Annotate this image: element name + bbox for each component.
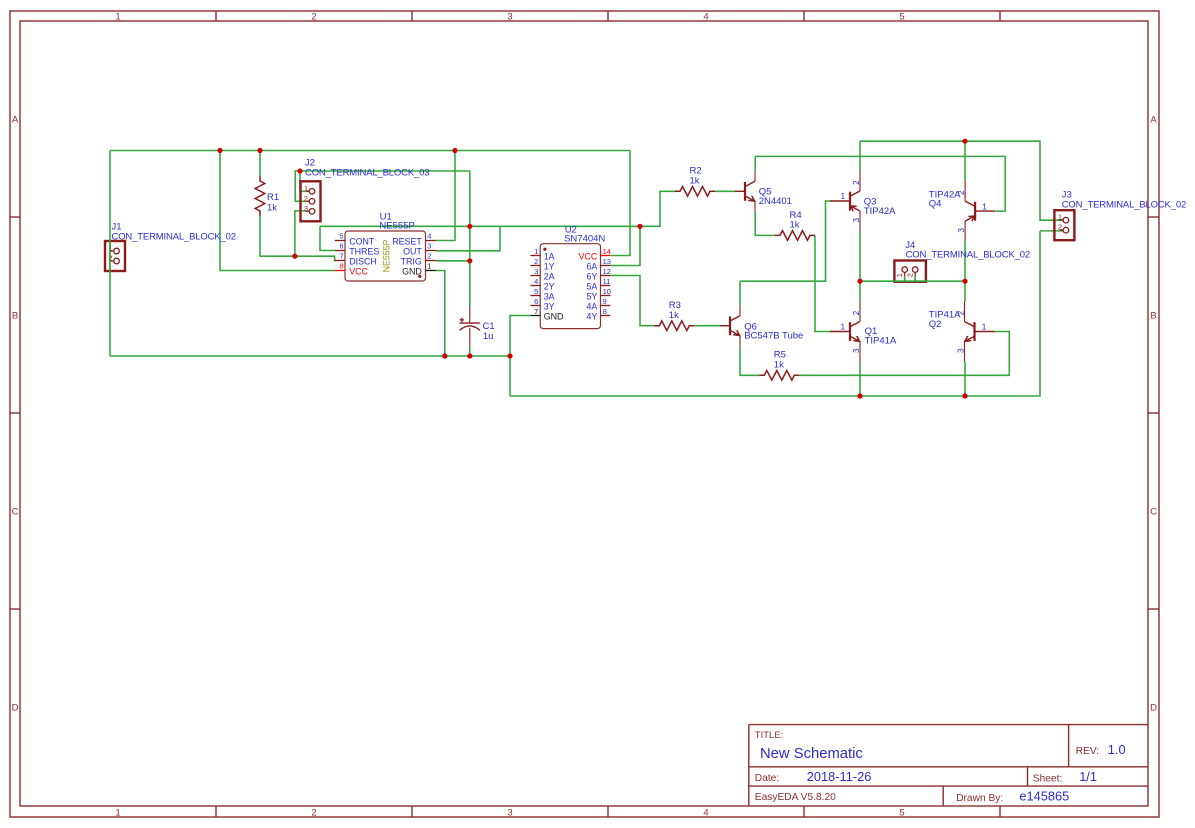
svg-text:3: 3	[852, 217, 861, 222]
wire R2 to Q5 base	[715, 190, 735, 192]
svg-text:Q2: Q2	[929, 319, 942, 330]
U1 pin 5 stub	[335, 240, 345, 242]
U2 pin 14 stub	[601, 255, 611, 257]
wire Q2 emitter down	[964, 362, 966, 397]
wire emitters mid rail	[860, 280, 965, 282]
wire U2 6A up	[610, 226, 640, 265]
junction Q4 emitter node	[962, 279, 967, 284]
svg-text:2: 2	[304, 194, 308, 203]
wire OUT jog up	[436, 226, 501, 251]
U1 pin 1 stub	[426, 270, 436, 272]
U1 GND marker dot	[418, 275, 421, 278]
svg-text:1: 1	[304, 184, 308, 193]
wire J3 pin2 link	[1040, 230, 1064, 232]
wire R4 to Q1 base	[815, 235, 830, 331]
svg-text:A: A	[12, 115, 19, 126]
svg-text:CONT: CONT	[349, 236, 375, 246]
svg-text:3A: 3A	[544, 291, 555, 301]
U2 pin 6 stub	[530, 305, 540, 307]
svg-text:NE555P: NE555P	[382, 239, 392, 272]
svg-text:1: 1	[1058, 213, 1062, 222]
svg-text:3: 3	[534, 267, 538, 276]
svg-text:1k: 1k	[690, 176, 700, 187]
U2 pin 5 stub	[530, 295, 540, 297]
svg-text:1.0: 1.0	[1108, 742, 1126, 757]
wire U2 6Y to R3	[610, 276, 654, 326]
svg-text:2: 2	[427, 251, 431, 260]
wire Q3 collector rail	[860, 141, 1064, 220]
svg-text:1Y: 1Y	[544, 261, 555, 271]
svg-text:e145865: e145865	[1019, 789, 1069, 804]
svg-text:GND: GND	[544, 311, 564, 321]
junction J2 pin3 / DISCH net	[292, 254, 297, 259]
svg-text:New Schematic: New Schematic	[760, 746, 863, 762]
wire THRES net horizontal	[320, 225, 640, 227]
U2 pin 12 stub	[601, 275, 611, 277]
svg-text:1: 1	[840, 323, 845, 332]
transistor Q5 body	[735, 171, 755, 211]
svg-text:Q4: Q4	[929, 199, 942, 210]
wire Q5 collector up	[754, 156, 756, 171]
junction U1-VCC / rail	[217, 148, 222, 153]
svg-text:8: 8	[603, 307, 607, 316]
wire Q3 emitter down	[859, 231, 861, 281]
svg-text:TITLE:: TITLE:	[755, 730, 784, 741]
svg-text:GND: GND	[402, 266, 422, 276]
junction Q4 collector / top rail	[962, 139, 967, 144]
svg-text:1/1: 1/1	[1079, 769, 1097, 784]
op-amp U1 box	[345, 231, 426, 281]
wire J2 pin1 link	[300, 171, 308, 191]
svg-text:BC547B Tube: BC547B Tube	[744, 331, 803, 342]
svg-text:D: D	[1150, 703, 1157, 714]
wire J4 pin2 stub	[914, 276, 916, 282]
junction R1 / rail	[257, 148, 262, 153]
row tick left 1	[10, 216, 20, 218]
title block Sheet divider	[1027, 767, 1029, 786]
svg-text:1k: 1k	[669, 310, 679, 321]
U1 pin 2 stub	[426, 260, 436, 262]
U1 pin 7 stub	[335, 260, 345, 262]
svg-text:5: 5	[339, 231, 343, 240]
wire C1 top lead	[469, 261, 471, 307]
svg-text:9: 9	[603, 297, 607, 306]
inverter U2 box	[540, 244, 600, 329]
svg-text:B: B	[12, 311, 18, 322]
transistor Q1 body	[830, 302, 860, 362]
svg-text:13: 13	[603, 257, 611, 266]
svg-text:1: 1	[534, 247, 538, 256]
U2 pin 7 stub	[530, 315, 540, 317]
wire R5 to Q2 base loop	[799, 332, 1009, 376]
resistor R5 body	[759, 371, 799, 381]
U2 pin 8 stub	[601, 315, 611, 317]
connector J1 body	[105, 241, 125, 271]
svg-text:2: 2	[852, 310, 861, 315]
column tick bottom 3	[607, 806, 609, 817]
column tick top 5	[999, 11, 1001, 21]
svg-text:1A: 1A	[544, 251, 555, 261]
transistor Q2 body	[965, 302, 995, 362]
wire through J1 overlay	[109, 240, 111, 273]
U2 pin 10 stub	[601, 295, 611, 297]
transistor Q3 body	[830, 171, 860, 231]
svg-text:CON_TERMINAL_BLOCK_02: CON_TERMINAL_BLOCK_02	[906, 250, 1030, 261]
wire Q6 emitter down	[740, 346, 759, 376]
column tick bottom 5	[999, 806, 1001, 817]
U2 pin 13 stub	[601, 265, 611, 267]
wire U1 VCC branch	[220, 151, 335, 271]
junction U1 GND / bottom rail	[442, 353, 447, 358]
svg-text:11: 11	[603, 277, 611, 286]
wire U2 VCC to top rail	[610, 151, 630, 256]
connector J2 body	[301, 181, 321, 221]
junction RESET / rail	[452, 148, 457, 153]
svg-text:1: 1	[427, 261, 431, 270]
svg-text:2: 2	[1058, 223, 1062, 232]
svg-text:CON_TERMINAL_BLOCK_02: CON_TERMINAL_BLOCK_02	[1062, 200, 1186, 211]
junction THRES / J2 vertical	[467, 224, 472, 229]
title block row line 1	[749, 766, 1148, 768]
wire Q4 emitter down	[964, 241, 966, 281]
wire Q6 collector to Q3 base	[740, 201, 830, 281]
svg-text:THRES: THRES	[349, 246, 379, 256]
svg-text:1k: 1k	[774, 360, 784, 371]
resistor R2 body	[675, 187, 715, 197]
svg-text:10: 10	[603, 287, 611, 296]
wire J2 pin3 link	[295, 211, 306, 256]
svg-text:4A: 4A	[586, 301, 597, 311]
U2 pin 1 stub	[530, 255, 540, 257]
svg-text:2N4401: 2N4401	[759, 196, 792, 207]
svg-text:1: 1	[840, 192, 845, 201]
wire Q5 emitter to R4	[755, 211, 775, 235]
svg-text:1: 1	[982, 323, 987, 332]
svg-text:Sheet:: Sheet:	[1033, 774, 1062, 785]
U1 pin 8 stub	[335, 270, 345, 272]
row tick right 3	[1148, 608, 1159, 610]
column tick top 1	[215, 11, 217, 21]
svg-text:1u: 1u	[483, 331, 494, 342]
svg-text:5A: 5A	[586, 281, 597, 291]
title block outline	[749, 725, 1148, 806]
svg-text:5: 5	[534, 287, 538, 296]
junction THRES / 6A	[637, 224, 642, 229]
wire Q1 emitter down	[859, 362, 861, 397]
wire bottom rail long	[510, 231, 1040, 396]
connector J4 body	[894, 261, 926, 282]
column tick top 4	[803, 11, 805, 21]
title block REV divider	[1068, 725, 1070, 767]
svg-text:TIP42A: TIP42A	[864, 206, 896, 217]
U2 pin1 marker dot	[543, 248, 546, 251]
svg-text:2018-11-26: 2018-11-26	[807, 769, 872, 784]
column tick top 2	[411, 11, 413, 21]
svg-text:REV:: REV:	[1076, 746, 1099, 757]
svg-text:8: 8	[339, 261, 343, 270]
row tick right 1	[1148, 216, 1159, 218]
junction Q2 emitter / bottom rail	[962, 393, 967, 398]
wire J4 pin1 stub overlay	[904, 276, 906, 281]
svg-text:4: 4	[427, 231, 431, 240]
svg-text:TIP41A: TIP41A	[865, 336, 897, 347]
junction Q1 emitter / bottom rail	[857, 393, 862, 398]
svg-text:14: 14	[603, 247, 611, 256]
resistor R3 body	[654, 321, 694, 331]
U1 pin 4 stub	[426, 240, 436, 242]
junction mid rail	[507, 353, 512, 358]
column tick top 3	[607, 11, 609, 21]
svg-text:2: 2	[534, 257, 538, 266]
svg-text:VCC: VCC	[349, 266, 368, 276]
wire RESET to rail	[436, 151, 456, 241]
svg-text:2: 2	[311, 808, 316, 819]
svg-text:1k: 1k	[790, 220, 800, 231]
junction TRIG / C1	[467, 258, 472, 263]
column tick bottom 4	[803, 806, 805, 817]
svg-text:5: 5	[899, 12, 904, 23]
svg-text:SN7404N: SN7404N	[564, 233, 605, 244]
svg-text:2A: 2A	[544, 271, 555, 281]
svg-text:4: 4	[703, 808, 708, 819]
svg-text:2Y: 2Y	[544, 281, 555, 291]
svg-text:3Y: 3Y	[544, 301, 555, 311]
title block row line 2	[749, 785, 1148, 787]
connector J3 body	[1054, 210, 1074, 240]
svg-text:R1: R1	[267, 192, 279, 203]
svg-text:7: 7	[534, 307, 538, 316]
transistor Q6 body	[720, 306, 740, 346]
svg-text:4: 4	[703, 12, 708, 23]
U2 pin 9 stub	[601, 305, 611, 307]
wire Q4 collector drop	[964, 141, 966, 181]
svg-text:3: 3	[507, 12, 512, 23]
svg-text:Date:: Date:	[755, 773, 779, 784]
svg-text:VCC: VCC	[579, 251, 598, 261]
wire J2 to TRIG vertical	[300, 171, 470, 261]
svg-text:6: 6	[534, 297, 538, 306]
U2 pin 3 stub	[530, 275, 540, 277]
svg-text:6Y: 6Y	[586, 271, 597, 281]
svg-text:C: C	[12, 507, 19, 518]
svg-text:OUT: OUT	[403, 246, 422, 256]
column tick bottom 1	[215, 806, 217, 817]
U1 pin 3 stub	[426, 250, 436, 252]
wire R3 to Q6 base	[694, 325, 720, 327]
svg-text:3: 3	[956, 348, 965, 353]
svg-text:7: 7	[339, 251, 343, 260]
svg-text:Drawn By:: Drawn By:	[956, 793, 1003, 804]
svg-text:2: 2	[905, 273, 914, 277]
svg-text:1: 1	[982, 202, 987, 211]
wire THRES net to R2	[640, 191, 675, 226]
transistor Q4 body	[965, 181, 995, 241]
wire mid rail to U2 GND	[510, 316, 530, 357]
svg-text:CON_TERMINAL_BLOCK_03: CON_TERMINAL_BLOCK_03	[305, 168, 429, 179]
wire across J4	[893, 280, 927, 282]
wire C1 bottom lead	[469, 346, 471, 356]
wire Q2 collector up	[964, 281, 966, 301]
column tick bottom 2	[411, 806, 413, 817]
wire THRES pickup	[320, 226, 335, 250]
svg-text:RESET: RESET	[392, 236, 422, 246]
svg-text:12: 12	[603, 267, 611, 276]
U2 pin 11 stub	[601, 285, 611, 287]
svg-text:TRIG: TRIG	[401, 256, 422, 266]
title block DrawnBy divider	[942, 786, 944, 806]
resistor R1 body	[255, 176, 265, 216]
svg-text:3: 3	[304, 204, 308, 213]
svg-text:3: 3	[507, 808, 512, 819]
svg-text:D: D	[12, 703, 19, 714]
wire J2 pin2 link	[295, 171, 308, 201]
row tick left 3	[10, 608, 20, 610]
wire left rail down from top	[109, 151, 111, 357]
svg-text:B: B	[1150, 311, 1156, 322]
wire TRIG stub	[436, 260, 470, 262]
U2 pin 4 stub	[530, 285, 540, 287]
svg-text:DISCH: DISCH	[349, 256, 377, 266]
svg-text:5: 5	[899, 808, 904, 819]
wire R1 top lead to rail	[259, 151, 261, 177]
wire Q6 collector up	[739, 281, 741, 306]
svg-text:1k: 1k	[267, 203, 277, 214]
junction J2 node	[297, 168, 302, 173]
svg-text:NE555P: NE555P	[379, 221, 414, 232]
svg-text:1: 1	[115, 12, 120, 23]
svg-text:6A: 6A	[586, 261, 597, 271]
U1 pin 6 stub	[335, 250, 345, 252]
resistor R4 body	[775, 231, 815, 241]
svg-text:1: 1	[895, 273, 904, 277]
svg-text:4Y: 4Y	[586, 311, 597, 321]
svg-text:CON_TERMINAL_BLOCK_02: CON_TERMINAL_BLOCK_02	[112, 232, 236, 243]
U2 pin 2 stub	[530, 265, 540, 267]
svg-text:1: 1	[115, 808, 120, 819]
wire VCC top rail	[110, 150, 630, 152]
wire R1 bottom to DISCH	[260, 216, 336, 261]
svg-text:C: C	[1150, 507, 1157, 518]
wire J4 pin1 stub	[904, 276, 906, 282]
svg-text:2: 2	[311, 12, 316, 23]
svg-text:A: A	[1150, 115, 1157, 126]
wire U1 GND down	[436, 271, 445, 357]
capacitor C1 body	[459, 306, 480, 345]
junction Q3 emitter node	[857, 279, 862, 284]
wire Q1 collector up	[859, 281, 861, 301]
wire Q3 collector drop	[859, 141, 861, 171]
row tick left 2	[10, 412, 20, 414]
wire Q5 collector to Q4 base	[755, 156, 1005, 211]
svg-text:6: 6	[339, 241, 343, 250]
svg-text:2: 2	[852, 180, 861, 185]
svg-text:3: 3	[852, 348, 861, 353]
wire J4 pin2 stub overlay	[914, 276, 916, 281]
svg-text:5Y: 5Y	[586, 291, 597, 301]
svg-text:4: 4	[534, 277, 538, 286]
junction C1 / bottom rail	[467, 353, 472, 358]
svg-text:EasyEDA V5.8.20: EasyEDA V5.8.20	[755, 792, 836, 803]
wire mid rail down	[509, 356, 511, 396]
wire bottom-left rail	[110, 355, 510, 357]
svg-text:3: 3	[957, 228, 966, 233]
row tick right 2	[1148, 412, 1159, 414]
svg-text:3: 3	[427, 241, 431, 250]
